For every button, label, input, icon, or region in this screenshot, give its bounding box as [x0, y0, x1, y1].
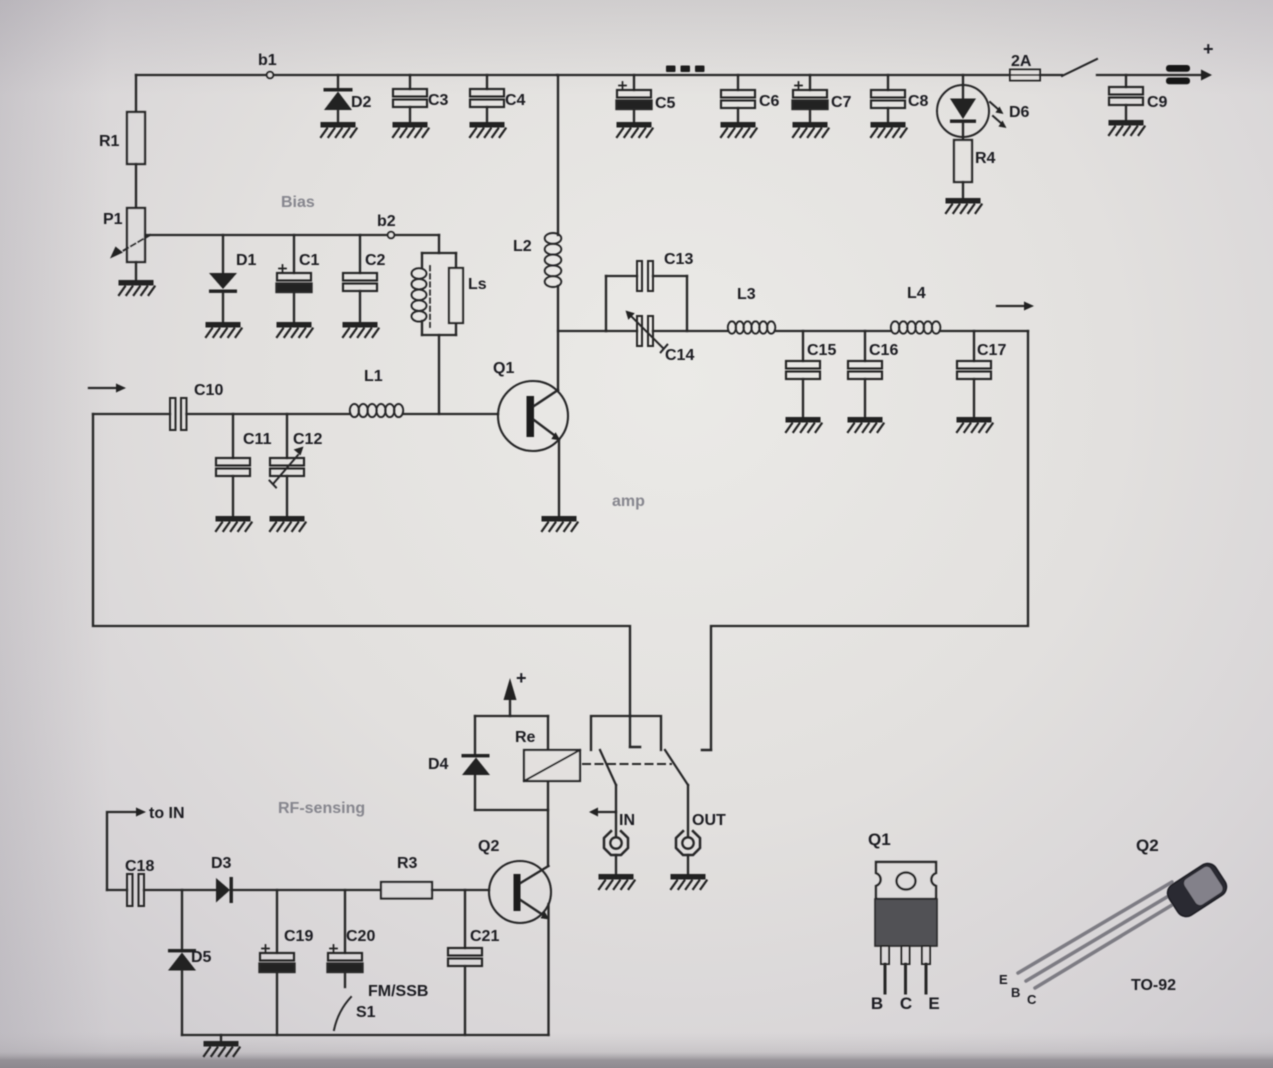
input arrow	[89, 387, 116, 389]
resistor R1	[127, 112, 145, 164]
svg-text:Q2: Q2	[478, 838, 499, 855]
svg-text:OUT: OUT	[692, 812, 726, 829]
inductor L2	[545, 233, 562, 287]
wire output routing loop	[702, 331, 1028, 750]
svg-text:C20: C20	[346, 928, 375, 945]
IN side fixed contact foot	[630, 746, 640, 748]
svg-text:E: E	[928, 994, 939, 1013]
wire Q2 emitter down	[547, 904, 549, 1035]
svg-text:C18: C18	[125, 858, 154, 875]
ground under C3	[393, 122, 429, 137]
node b2	[388, 232, 395, 239]
wire input routing loop	[93, 414, 640, 747]
inductor L3	[728, 321, 776, 333]
wire RF bottom rail	[182, 1034, 549, 1036]
capacitor C3	[409, 75, 411, 89]
svg-text:C16: C16	[869, 342, 898, 359]
svg-text:IN: IN	[619, 812, 635, 829]
wire C18 to D3	[144, 889, 216, 891]
to IN arrow	[107, 812, 136, 890]
wire L4 to output corner	[940, 330, 1028, 332]
diode D4	[462, 754, 490, 757]
svg-text:D1: D1	[236, 252, 257, 269]
wire OUT pole	[687, 785, 689, 837]
svg-text:D6: D6	[1009, 104, 1030, 121]
ground under C16	[848, 417, 884, 432]
ground under IN jack	[599, 874, 635, 889]
wire input to C10	[93, 413, 170, 415]
OUT side fixed contact foot	[702, 749, 711, 751]
ground under C6	[721, 122, 757, 137]
P1 wiper arrow	[121, 235, 150, 252]
svg-text:C12: C12	[293, 431, 322, 448]
wire L3 to L4	[775, 330, 891, 332]
capacitor C7	[809, 75, 811, 90]
svg-text:C: C	[1027, 992, 1037, 1007]
svg-text:TO-92: TO-92	[1131, 977, 1176, 994]
wire to + output	[1097, 74, 1202, 76]
wire Ls to base rail	[438, 335, 440, 414]
D6 emission arrows	[990, 102, 1007, 128]
capacitor C19	[276, 890, 278, 953]
C13/C14 coupling block	[605, 276, 607, 331]
svg-text:2A: 2A	[1011, 53, 1032, 70]
ground under P1	[119, 280, 155, 295]
wire OUT jack to ground	[687, 855, 689, 874]
svg-text:C14: C14	[665, 347, 694, 364]
ground under Q1	[542, 516, 578, 531]
ground under OUT jack	[671, 874, 707, 889]
svg-text:to IN: to IN	[149, 805, 185, 822]
svg-text:Q2: Q2	[1136, 836, 1159, 855]
ground under C2	[343, 322, 379, 337]
svg-text:L2: L2	[513, 238, 532, 255]
capacitor C15	[802, 331, 804, 361]
svg-text:C15: C15	[807, 342, 836, 359]
svg-text:C9: C9	[1147, 94, 1168, 111]
wire top rail right	[557, 74, 1010, 76]
diode D5	[181, 890, 183, 949]
wire collector branch	[558, 330, 606, 332]
svg-text:C11: C11	[243, 431, 272, 448]
ground under C17	[957, 417, 993, 432]
ground under RF rail	[204, 1041, 240, 1056]
svg-text:D2: D2	[351, 94, 372, 111]
svg-text:C7: C7	[831, 94, 852, 111]
svg-text:L3: L3	[737, 286, 756, 303]
svg-text:amp: amp	[612, 493, 645, 510]
capacitor C11	[232, 414, 234, 458]
svg-text:C6: C6	[759, 93, 780, 110]
svg-text:D3: D3	[211, 855, 232, 872]
wire R3 to Q2 base	[432, 889, 489, 891]
capacitor C4	[486, 75, 488, 89]
diode D3	[216, 878, 230, 903]
wire top rail left	[136, 74, 557, 76]
resistor R3	[381, 882, 432, 899]
wire to C18	[107, 889, 127, 891]
svg-text:b1: b1	[258, 52, 277, 69]
capacitor C21	[464, 890, 466, 948]
ground under C8	[871, 122, 907, 137]
resistor R4	[954, 140, 972, 182]
svg-text:C17: C17	[977, 342, 1006, 359]
svg-text:D4: D4	[428, 756, 449, 773]
capacitor C17	[973, 331, 975, 361]
jack OUT	[676, 831, 700, 855]
output arrow	[997, 305, 1024, 307]
svg-text:C3: C3	[428, 92, 449, 109]
inductor L1	[350, 404, 403, 417]
diode D2	[337, 75, 339, 88]
svg-text:b2: b2	[377, 213, 396, 230]
svg-text:RF-sensing: RF-sensing	[278, 800, 365, 817]
svg-text:Ls: Ls	[468, 276, 487, 293]
output arrowhead	[1201, 70, 1212, 81]
wire IN pole	[615, 785, 617, 837]
capacitor C13	[637, 261, 642, 291]
capacitor C1	[293, 235, 295, 273]
capacitor C10	[170, 398, 176, 430]
jack IN	[604, 831, 628, 855]
IN arrow	[598, 811, 616, 813]
capacitor C5	[633, 75, 635, 90]
svg-text:P1: P1	[103, 211, 123, 228]
trimmer C14	[606, 330, 728, 332]
relay moving contact IN	[600, 750, 616, 785]
ground under C9	[1109, 120, 1145, 135]
inductor Ls block	[422, 253, 456, 335]
wire R1 to P1	[135, 164, 137, 208]
ground under C4	[470, 122, 506, 137]
wire R1 top stem	[135, 75, 137, 112]
relay Re coil loop	[475, 716, 548, 810]
svg-text:Q1: Q1	[493, 360, 514, 377]
trimmer C12	[286, 414, 288, 458]
wire C10 to L1	[187, 413, 351, 415]
wire bias to Ls block	[438, 235, 440, 253]
capacitor C6	[737, 75, 739, 90]
fuse 2A	[1010, 70, 1040, 81]
capacitor C16	[864, 331, 866, 361]
svg-text:B: B	[1011, 985, 1020, 1000]
svg-text:+: +	[516, 668, 527, 688]
wire Q1 emitter to ground	[558, 440, 560, 516]
ground under C1	[277, 322, 313, 337]
ground under D1	[206, 322, 242, 337]
switch S1	[334, 997, 351, 1030]
svg-text:C13: C13	[664, 251, 693, 268]
wire D3 to R3	[233, 889, 381, 891]
ground under C5	[617, 122, 653, 137]
svg-text:L1: L1	[364, 368, 383, 385]
wire Q1 base rail	[403, 413, 498, 415]
svg-text:C1: C1	[299, 252, 320, 269]
svg-text:R3: R3	[397, 855, 418, 872]
svg-text:FM/SSB: FM/SSB	[368, 983, 428, 1000]
svg-text:Bias: Bias	[281, 194, 315, 211]
svg-text:C4: C4	[505, 92, 526, 109]
svg-text:C21: C21	[470, 928, 499, 945]
svg-text:+: +	[1203, 39, 1214, 59]
capacitor C18	[127, 874, 133, 906]
wire ground stem	[220, 1035, 222, 1041]
svg-text:R4: R4	[975, 150, 996, 167]
svg-text:R1: R1	[99, 133, 120, 150]
node b1	[267, 72, 274, 79]
relay linkage dashed	[583, 763, 671, 765]
capacitor C2	[359, 235, 361, 273]
relay coil box Re	[547, 716, 549, 866]
capacitor C20	[344, 890, 346, 953]
svg-text:E: E	[999, 972, 1008, 987]
ground under C11	[216, 516, 252, 531]
ground under C12	[270, 516, 306, 531]
power switch	[1040, 74, 1062, 76]
LED D6	[962, 75, 964, 85]
wire L2 vertical	[557, 75, 559, 390]
inductor L4	[891, 321, 941, 333]
svg-text:B: B	[871, 994, 883, 1013]
wire bias rail	[146, 234, 439, 236]
svg-text:L4: L4	[907, 285, 926, 302]
svg-text:Re: Re	[515, 729, 536, 746]
svg-text:C5: C5	[655, 95, 676, 112]
relay moving contact OUT	[665, 750, 688, 785]
svg-text:S1: S1	[356, 1004, 376, 1021]
svg-text:C19: C19	[284, 928, 313, 945]
capacitor C8	[887, 75, 889, 90]
svg-text:C: C	[900, 994, 912, 1013]
wire P1 to ground	[135, 262, 137, 280]
svg-text:C8: C8	[908, 93, 929, 110]
ground under C7	[793, 122, 829, 137]
potentiometer P1	[127, 208, 145, 262]
continuation dots	[666, 66, 705, 73]
svg-text:C2: C2	[365, 252, 386, 269]
wire IN jack to ground	[615, 855, 617, 874]
polarized terminal marks	[1166, 65, 1190, 72]
ground under R4	[946, 198, 982, 213]
svg-text:C10: C10	[194, 382, 223, 399]
capacitor C9	[1125, 75, 1127, 87]
svg-text:Q1: Q1	[868, 830, 891, 849]
svg-text:D5: D5	[191, 949, 212, 966]
ground under D2	[321, 122, 357, 137]
diode D1	[222, 235, 224, 273]
ground under C15	[786, 417, 822, 432]
relay fixed contact bracket	[591, 716, 661, 750]
relay plus arrow	[509, 700, 511, 716]
wire R4 to ground	[962, 182, 964, 198]
